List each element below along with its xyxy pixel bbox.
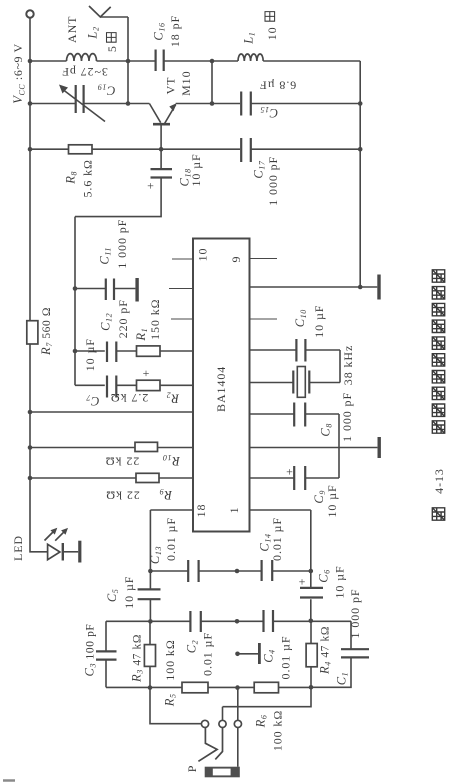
svg-text:100 kΩ: 100 kΩ: [271, 710, 285, 751]
plug P prong 2: [215, 728, 222, 760]
wire C6 branch: [310, 571, 312, 621]
junction pin1-C14: [309, 569, 314, 574]
capacitor C10: [296, 339, 305, 362]
wire Vcc rail upper: [29, 18, 31, 321]
plug P body: [205, 767, 240, 778]
svg-text:100 kΩ: 100 kΩ: [163, 639, 177, 680]
junction R4-C1: [309, 685, 314, 690]
wire audio py571: [150, 570, 310, 572]
svg-text:ANT: ANT: [65, 16, 79, 43]
wire audio py621: [106, 621, 351, 687]
capacitor C2: [190, 611, 200, 632]
svg-text:0.01 µF: 0.01 µF: [270, 517, 284, 561]
svg-text:C8: C8: [318, 423, 333, 437]
junction bus-C15: [358, 101, 363, 106]
wire plug tip contact: [150, 688, 201, 724]
wire C18 branch: [75, 149, 161, 385]
capacitor C19 variable: [76, 85, 84, 113]
svg-text:220 pF: 220 pF: [116, 299, 130, 338]
wire pin ground py447 right: [250, 447, 377, 449]
crystal 38kHz: [293, 371, 309, 394]
capacitor C1: [341, 649, 369, 657]
wire C3 branch: [105, 621, 107, 687]
svg-text:R3 47 kΩ: R3 47 kΩ: [130, 634, 145, 683]
svg-text:C10: C10: [293, 309, 308, 327]
svg-text:L1: L1: [241, 32, 256, 45]
wire C10 branch: [250, 350, 340, 383]
arrow of variable capacitor C19: [59, 85, 68, 94]
ground G3 (pin9 bus): [377, 275, 380, 300]
svg-text:0.01 µF: 0.01 µF: [164, 517, 178, 561]
wire R4 leads: [310, 621, 312, 688]
junction C4-ground tap: [235, 652, 240, 657]
svg-text:R2: R2: [166, 391, 180, 406]
wire plug ring contact: [223, 687, 312, 720]
junction pin18-C13: [148, 569, 153, 574]
svg-text:L2: L2: [86, 26, 101, 39]
svg-text:C11: C11: [97, 247, 112, 265]
junction C5-C2: [148, 619, 153, 624]
svg-text:1 000 pF: 1 000 pF: [115, 219, 129, 269]
node Vcc terminal: [26, 10, 33, 17]
capacitor C13: [188, 560, 198, 582]
junction R5-R6: [235, 685, 240, 690]
svg-text:M10: M10: [179, 71, 193, 96]
wire crystal branch: [250, 382, 340, 384]
junction C18-C11: [73, 286, 78, 291]
junction rail-bias: [28, 410, 33, 415]
svg-text:22 kΩ: 22 kΩ: [105, 489, 139, 503]
svg-text:R8: R8: [63, 171, 78, 185]
capacitor C12: [107, 342, 116, 363]
LED diode: [48, 544, 60, 559]
resistor R10: [135, 442, 158, 451]
junction bus-C17: [358, 147, 363, 152]
junction rail-R9: [28, 476, 33, 481]
resistor R7: [27, 321, 38, 344]
capacitor C7: [107, 376, 116, 398]
svg-text:18 pF: 18 pF: [168, 15, 182, 47]
svg-text:P: P: [185, 765, 199, 773]
wire C5 branch: [149, 571, 151, 621]
svg-text:2.7 kΩ: 2.7 kΩ: [110, 391, 148, 405]
svg-text:C5: C5: [105, 589, 120, 603]
capacitor C5: [138, 589, 161, 599]
svg-text:10 µF: 10 µF: [83, 338, 97, 371]
svg-text:10 µF: 10 µF: [312, 305, 326, 338]
junction antenna-collector: [126, 101, 131, 106]
resistor R1: [137, 346, 161, 356]
svg-text:1 000 pF: 1 000 pF: [348, 589, 362, 639]
svg-text:R10: R10: [162, 453, 180, 468]
resistor R3: [144, 645, 155, 667]
svg-text:C17: C17: [252, 160, 267, 179]
wire R10 branch py447: [30, 447, 193, 449]
transistor VT: [153, 123, 170, 126]
wire pin18 branch: [150, 510, 193, 571]
svg-text:0.01 µF: 0.01 µF: [279, 636, 293, 680]
junction R3-R5: [148, 685, 153, 690]
antenna ANT: [89, 6, 111, 17]
svg-text:+: +: [147, 179, 155, 193]
svg-text:5.6 kΩ: 5.6 kΩ: [80, 159, 94, 197]
capacitor C16: [156, 50, 164, 72]
ground G5 (C4 node): [258, 643, 261, 664]
svg-text:1 000 pF: 1 000 pF: [340, 392, 354, 442]
caption hanzi title x10: [432, 270, 444, 433]
svg-text:R7 560 Ω: R7 560 Ω: [39, 307, 54, 356]
svg-text:10 µF: 10 µF: [122, 576, 136, 609]
wire antenna feed: [100, 17, 128, 104]
wire C4 node to ground: [238, 653, 259, 655]
inductor L1: [238, 54, 263, 61]
svg-text:10: 10: [265, 26, 279, 40]
resistor R6: [254, 682, 278, 693]
resistor R5: [182, 682, 208, 693]
junction rail-L2: [28, 59, 33, 64]
IC U1 BA1404 body: [193, 239, 250, 532]
svg-text:1: 1: [227, 506, 241, 513]
junction rail-R8: [28, 147, 33, 152]
IC unconnected stubs right: [250, 259, 277, 320]
svg-text:10 µF: 10 µF: [189, 153, 203, 186]
LED emission arrows: [45, 531, 65, 541]
wire plug sleeve contact: [237, 688, 239, 767]
svg-text:0.01 µF: 0.01 µF: [201, 632, 215, 676]
svg-text:VCC :6~9 V: VCC :6~9 V: [11, 43, 27, 104]
svg-text:3~27 pF: 3~27 pF: [61, 65, 107, 79]
svg-text:C2: C2: [185, 640, 200, 654]
wire link px212: [211, 61, 213, 104]
svg-text:R4 47 kΩ: R4 47 kΩ: [318, 626, 333, 675]
svg-text:5: 5: [105, 45, 119, 52]
svg-text:R9: R9: [159, 487, 173, 502]
svg-text:4-13: 4-13: [432, 468, 446, 494]
capacitor C9: [294, 466, 305, 490]
wire Vcc rail lower: [30, 344, 48, 552]
capacitor C18: [151, 169, 173, 177]
IC unconnected stubs left: [169, 259, 193, 319]
wire R3 leads: [149, 621, 151, 687]
wire right bus: [359, 61, 361, 287]
junction C13-C14: [235, 569, 240, 574]
svg-text:6.8 µF: 6.8 µF: [259, 78, 296, 92]
resistor R8: [69, 145, 93, 154]
capacitor C15: [241, 92, 251, 116]
wire C7 R2 branch py385: [75, 384, 193, 386]
junction bus-ground: [358, 285, 363, 290]
junction antenna-L2: [126, 59, 131, 64]
svg-text:C4: C4: [262, 649, 277, 663]
svg-text:LED: LED: [11, 535, 25, 561]
inductor L2: [67, 54, 97, 61]
svg-text:VT: VT: [164, 77, 178, 95]
resistor R9: [136, 473, 159, 482]
capacitor C14: [262, 560, 273, 581]
plug P prong 1: [198, 728, 217, 762]
svg-text:R1: R1: [134, 328, 149, 342]
svg-text:C16: C16: [152, 22, 167, 40]
svg-text:R5: R5: [163, 693, 178, 707]
wire bias py412: [30, 411, 193, 413]
capacitor C6: [300, 588, 323, 598]
ground G2 (LED): [78, 541, 81, 563]
svg-text:10 µF: 10 µF: [325, 484, 339, 517]
wire base branch py149: [30, 148, 360, 150]
caption hanzi tu: [432, 508, 444, 520]
plug P contacts: [201, 720, 208, 727]
svg-text:BA1404: BA1404: [214, 366, 228, 412]
svg-text:+: +: [299, 575, 307, 589]
capacitor C8: [294, 403, 305, 427]
svg-text:C12: C12: [99, 313, 114, 331]
resistor R4: [306, 644, 317, 667]
wire oscillator branch py103: [30, 103, 360, 105]
junction C18-C12: [73, 349, 78, 354]
svg-text:38 kHz: 38 kHz: [341, 345, 355, 385]
junction rail-R10: [28, 445, 33, 450]
svg-text:10 µF: 10 µF: [333, 565, 347, 598]
svg-text:C3 100 pF: C3 100 pF: [83, 624, 98, 677]
capacitor C3: [96, 651, 117, 659]
svg-text:18: 18: [194, 504, 208, 518]
svg-text:10: 10: [196, 248, 210, 262]
wire pin1 branch: [250, 510, 310, 571]
wire pin9 to ground: [250, 286, 377, 288]
resistor R2: [137, 380, 161, 390]
junction C16-L1: [210, 59, 215, 64]
svg-text:C19: C19: [97, 82, 115, 97]
ground G4 (py447): [378, 437, 381, 458]
capacitor C17: [241, 138, 251, 162]
svg-text:C6: C6: [317, 569, 332, 583]
capacitor C11: [106, 279, 114, 301]
ground G1 (C11): [135, 278, 138, 302]
junction rail-C19: [28, 101, 33, 106]
wire LED to ground: [64, 551, 78, 553]
scan artifact mark: [3, 779, 15, 782]
svg-text:C15: C15: [260, 105, 278, 120]
wire audio py687: [106, 686, 311, 688]
wire C8 branch: [250, 414, 339, 478]
svg-text:+: +: [143, 366, 151, 380]
svg-text:1 000 pF: 1 000 pF: [266, 156, 280, 206]
junction base-R8: [159, 147, 164, 152]
svg-text:C7: C7: [86, 393, 100, 408]
capacitor C4: [264, 610, 274, 632]
wire R9 branch py478: [30, 477, 193, 479]
wire C11 to ground: [75, 288, 135, 290]
svg-text:+: +: [286, 465, 294, 479]
svg-text:R6: R6: [254, 714, 269, 728]
svg-text:C1: C1: [335, 672, 350, 686]
svg-text:9: 9: [229, 256, 243, 263]
wire C12 R1 branch py351: [75, 350, 193, 352]
junction C2-C4: [235, 619, 240, 624]
svg-text:22 kΩ: 22 kΩ: [105, 454, 139, 468]
svg-text:150 kΩ: 150 kΩ: [148, 299, 162, 340]
wire RF top branch py61: [30, 60, 360, 62]
wire C9 branch: [250, 477, 339, 479]
junction emitter-C15: [210, 101, 215, 106]
junction C6-R4: [309, 619, 314, 624]
